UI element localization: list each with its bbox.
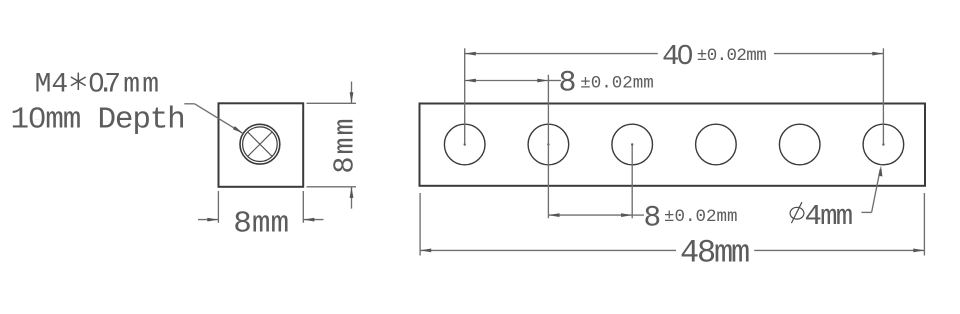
svg-text:48mm: 48mm xyxy=(680,235,749,272)
svg-text:4mm: 4mm xyxy=(805,200,852,233)
svg-text:8: 8 xyxy=(559,67,577,101)
svg-text:40: 40 xyxy=(662,40,692,73)
svg-text:8mm: 8mm xyxy=(329,116,362,173)
svg-text:±0.02mm: ±0.02mm xyxy=(697,46,766,66)
svg-text:10mm Depth: 10mm Depth xyxy=(11,102,185,137)
svg-text:8: 8 xyxy=(644,200,662,234)
svg-text:8mm: 8mm xyxy=(233,207,289,242)
svg-text:7mm: 7mm xyxy=(104,70,161,101)
svg-text:M4: M4 xyxy=(35,70,69,101)
svg-text:±0.02mm: ±0.02mm xyxy=(580,74,654,94)
svg-text:±0.02mm: ±0.02mm xyxy=(664,207,738,227)
